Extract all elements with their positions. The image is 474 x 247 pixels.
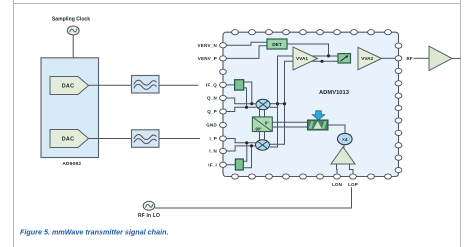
- pins top row: [232, 30, 392, 35]
- mixer MIX_I: [256, 140, 270, 150]
- wire balun Q lower out: [244, 88, 247, 107]
- svg-text:IF_I: IF_I: [208, 162, 217, 167]
- svg-text:×4: ×4: [342, 137, 348, 143]
- wire LOAMP leg LOP: [350, 164, 354, 174]
- svg-text:Q_P: Q_P: [207, 109, 217, 114]
- converter AD9082: [41, 58, 99, 158]
- wire DAC2 to filter2: [89, 138, 132, 140]
- quadrature splitter 0/90: [252, 117, 272, 132]
- wire VENV_N to DET: [227, 42, 268, 45]
- wire filter to multiplier: [328, 125, 345, 133]
- page frame right rule: [460, 0, 462, 247]
- wire clock to AD9082: [72, 35, 74, 58]
- attenuator ATT: [338, 54, 351, 63]
- junction DET tap: [327, 54, 330, 57]
- svg-text:0°: 0°: [265, 120, 269, 125]
- svg-text:ADMV1013: ADMV1013: [319, 90, 350, 96]
- wire LO feed from RF In LO: [155, 187, 352, 208]
- wire splitter to mixer1 leg b: [264, 109, 266, 117]
- junction Q lower: [245, 106, 248, 109]
- amplifier PA external: [429, 46, 452, 70]
- pins left column: [220, 43, 227, 168]
- svg-text:RF: RF: [407, 56, 413, 61]
- mixer MIX_Q: [256, 99, 270, 109]
- junction after VVA1: [320, 60, 323, 63]
- filter FL2: [132, 130, 160, 148]
- svg-text:DAC: DAC: [62, 137, 75, 143]
- clock source SAMPCLK: [67, 26, 79, 35]
- wire summing lower rail: [285, 61, 339, 107]
- amplifier VVA1: [293, 47, 318, 70]
- junction rail lower: [283, 102, 286, 105]
- svg-text:I_P: I_P: [209, 136, 217, 141]
- wire LO pair lower to splitter: [272, 126, 307, 128]
- svg-text:DAC: DAC: [62, 84, 75, 90]
- svg-text:RF In LO: RF In LO: [138, 213, 160, 219]
- wire IF_Q to balun: [227, 84, 235, 86]
- wire splitter to mixer1 leg a: [259, 109, 261, 117]
- multiplier X4: [338, 133, 353, 144]
- wire VVA2 to RF pin: [382, 57, 396, 59]
- tuning arrow: [312, 111, 324, 120]
- wire DAC1 to filter1: [89, 84, 132, 86]
- wire balun I upper out: [243, 143, 247, 162]
- wire IF_I to balun: [227, 164, 236, 166]
- balun T_Q: [235, 80, 244, 90]
- wire DET tap from RF line: [287, 44, 329, 56]
- balun T_I: [235, 159, 243, 170]
- wire I_N to mixer: [227, 146, 256, 151]
- dac DAC2: [50, 130, 89, 148]
- wire balun Q upper out: [244, 82, 252, 104]
- wire balun I lower out: [243, 146, 251, 168]
- band select filter LOF: [308, 120, 329, 130]
- wire Q_N to mixer: [227, 98, 257, 104]
- pins right column: [395, 43, 402, 173]
- wire mixer1 out lower: [270, 106, 278, 108]
- svg-text:VVA2: VVA2: [361, 56, 373, 61]
- wire filter2 to I_P: [159, 138, 200, 140]
- wire splitter to mixer2 leg a: [259, 132, 261, 141]
- junction rail upper: [276, 102, 279, 105]
- clock source RF In LO: [143, 201, 155, 210]
- wire RF pin to external amp: [414, 57, 430, 59]
- wire VENV_P to DET: [227, 46, 268, 59]
- svg-text:DET: DET: [272, 42, 282, 48]
- wire splitter to mixer2 leg b: [264, 132, 266, 141]
- wire multiplier to LO amp: [343, 145, 345, 148]
- wire summing upper rail: [278, 56, 339, 104]
- amplifier VVA2: [358, 47, 382, 69]
- svg-text:LOP: LOP: [348, 182, 358, 187]
- svg-text:Q_N: Q_N: [207, 96, 217, 101]
- svg-text:VVA1: VVA1: [296, 56, 308, 61]
- svg-text:VENV_P: VENV_P: [198, 56, 217, 61]
- wire vertical lower rail lower half: [270, 107, 285, 144]
- svg-text:Figure 5. mmWave transmitter s: Figure 5. mmWave transmitter signal chai…: [20, 227, 168, 236]
- svg-text:90°: 90°: [255, 127, 262, 132]
- pin labels left: [197, 43, 217, 167]
- chip ADMV1013 body: [223, 32, 399, 176]
- junction I lower: [250, 144, 253, 147]
- wire external amp out: [452, 57, 461, 59]
- wire I_P to mixer: [227, 139, 256, 143]
- svg-text:Sampling Clock: Sampling Clock: [52, 17, 90, 23]
- junction I upper: [245, 141, 248, 144]
- amplifier LOAMP: [331, 147, 355, 164]
- svg-text:I_N: I_N: [209, 149, 217, 154]
- wire LOAMP leg LON: [336, 164, 339, 174]
- svg-text:IF_Q: IF_Q: [206, 83, 217, 88]
- detector DET: [267, 39, 287, 49]
- page frame left rule: [13, 0, 15, 247]
- wire filter1 to IF_Q: [159, 84, 199, 86]
- wire vertical upper rail lower half: [270, 104, 278, 147]
- pins bottom row: [232, 174, 392, 179]
- wire Q_P to mixer: [227, 107, 257, 111]
- wire LO pair upper to splitter: [272, 121, 307, 123]
- page frame top rule: [14, 3, 461, 5]
- svg-text:AD9082: AD9082: [62, 161, 81, 167]
- filter FL1: [132, 76, 160, 94]
- wire mixer1 out upper: [270, 103, 285, 105]
- junction Q upper: [250, 102, 253, 105]
- svg-text:GND: GND: [206, 123, 217, 128]
- svg-text:VENV_N: VENV_N: [197, 43, 217, 48]
- svg-text:LON: LON: [332, 182, 342, 187]
- dac DAC1: [50, 77, 89, 95]
